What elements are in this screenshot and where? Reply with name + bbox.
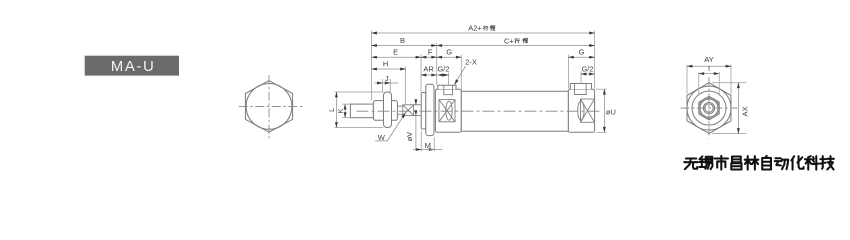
hexagon outline bbox=[245, 81, 292, 133]
main centerline bbox=[357, 110, 601, 112]
boss circle bbox=[700, 99, 718, 117]
front port boss bbox=[438, 85, 456, 89]
dim L bbox=[335, 92, 384, 128]
dim A2+stroke bbox=[372, 32, 595, 34]
title block MA-U bbox=[85, 56, 179, 76]
company text char wu bbox=[684, 159, 698, 170]
front mounting nut bbox=[426, 84, 434, 135]
company text char zi bbox=[762, 156, 771, 170]
ext line rear end bbox=[594, 31, 596, 89]
rod neck bbox=[397, 106, 403, 114]
svg-text:G/2: G/2 bbox=[581, 64, 593, 73]
svg-text:øU: øU bbox=[606, 107, 616, 116]
left hex nut end view bbox=[245, 81, 292, 133]
svg-text:H: H bbox=[383, 59, 388, 68]
label C stroke-length char xing bbox=[515, 38, 520, 43]
tube circle bbox=[692, 91, 726, 125]
ext line front port center bbox=[448, 73, 450, 85]
svg-text:A2+: A2+ bbox=[468, 24, 482, 33]
dim K bbox=[342, 104, 350, 118]
dim AR bbox=[421, 74, 437, 76]
rod wrench flats bbox=[373, 101, 397, 121]
ext line tube rear bbox=[567, 55, 569, 89]
company text char hua bbox=[791, 156, 803, 169]
company text char dong bbox=[775, 158, 789, 169]
dim G front bbox=[437, 56, 462, 58]
svg-text:M: M bbox=[425, 141, 431, 150]
dim G/2 rear bbox=[581, 73, 595, 75]
company text char ji bbox=[820, 156, 834, 169]
ext line rear port center bbox=[580, 72, 582, 84]
svg-text:B: B bbox=[400, 36, 405, 45]
company text char chang bbox=[731, 156, 741, 169]
piston rod threaded end bbox=[350, 104, 373, 118]
rear head cap bbox=[568, 89, 594, 132]
svg-text:AY: AY bbox=[704, 55, 713, 64]
dim F bbox=[421, 56, 437, 58]
company text char shi bbox=[715, 156, 728, 170]
svg-text:AX: AX bbox=[741, 106, 750, 116]
front port passage X bbox=[439, 100, 455, 122]
svg-text:øV: øV bbox=[405, 132, 414, 142]
svg-text:J: J bbox=[385, 74, 389, 83]
company text char xi bbox=[699, 156, 712, 169]
rear port boss bbox=[570, 84, 591, 90]
rod thread minor circle bbox=[705, 104, 713, 112]
dim U bbox=[596, 89, 607, 132]
right hex centerlines bbox=[681, 77, 738, 139]
rod gland bushing bbox=[403, 105, 414, 116]
svg-text:L: L bbox=[327, 108, 336, 112]
svg-text:AR: AR bbox=[423, 65, 434, 74]
ext line rod shoulder bbox=[371, 31, 373, 101]
dim I bbox=[699, 72, 719, 96]
svg-text:K: K bbox=[336, 108, 345, 113]
dim J bbox=[374, 79, 398, 93]
inner hex bbox=[699, 96, 719, 120]
svg-text:I: I bbox=[708, 64, 710, 73]
svg-text:G/2: G/2 bbox=[437, 65, 449, 74]
ext line tube front bbox=[460, 55, 462, 91]
svg-text:2-X: 2-X bbox=[465, 58, 477, 67]
rear port passage X bbox=[578, 99, 595, 122]
company text char lin bbox=[745, 156, 759, 169]
dim E bbox=[372, 56, 422, 58]
company name placeholder (drawn strokes) bbox=[684, 156, 834, 170]
svg-text:G: G bbox=[579, 48, 585, 57]
svg-text:G: G bbox=[446, 48, 452, 57]
dim C+stroke bbox=[437, 45, 595, 47]
dim G/2 front bbox=[438, 74, 449, 76]
svg-text:C+: C+ bbox=[504, 36, 514, 45]
dim V bbox=[415, 99, 417, 151]
gland sleeve lines bbox=[414, 105, 422, 116]
dim H bbox=[372, 68, 406, 70]
label A2 stroke-length char cheng bbox=[490, 26, 495, 31]
company text char ke bbox=[805, 156, 819, 169]
front head cap bbox=[435, 89, 461, 132]
label C stroke-length char cheng bbox=[523, 38, 528, 43]
dim AY bbox=[687, 65, 731, 95]
svg-text:E: E bbox=[393, 48, 398, 57]
across-flats circle bbox=[687, 86, 731, 130]
cylinder tube bbox=[461, 91, 568, 131]
ext line flange front bbox=[420, 55, 422, 93]
rod thread major circle bbox=[703, 103, 714, 114]
dim B bbox=[372, 45, 437, 47]
rear port thread hole bbox=[575, 84, 587, 95]
left hex centerlines bbox=[239, 75, 303, 138]
outer hexagon bbox=[687, 83, 731, 134]
front flange washer bbox=[421, 93, 426, 130]
across-flats circle bbox=[246, 84, 292, 130]
ext line H end bbox=[405, 67, 407, 105]
dim G rear bbox=[568, 56, 594, 58]
dim M bbox=[413, 131, 442, 152]
dim AX bbox=[712, 83, 747, 134]
svg-text:MA-U: MA-U bbox=[111, 58, 156, 75]
label A2 stroke-length char xing bbox=[483, 26, 488, 31]
front port thread hole bbox=[444, 85, 453, 94]
rod mounting nut (side) bbox=[384, 92, 392, 128]
svg-text:F: F bbox=[428, 48, 433, 57]
inner hex inscribed circle bbox=[699, 98, 719, 118]
ext line cap face front bbox=[436, 43, 438, 85]
